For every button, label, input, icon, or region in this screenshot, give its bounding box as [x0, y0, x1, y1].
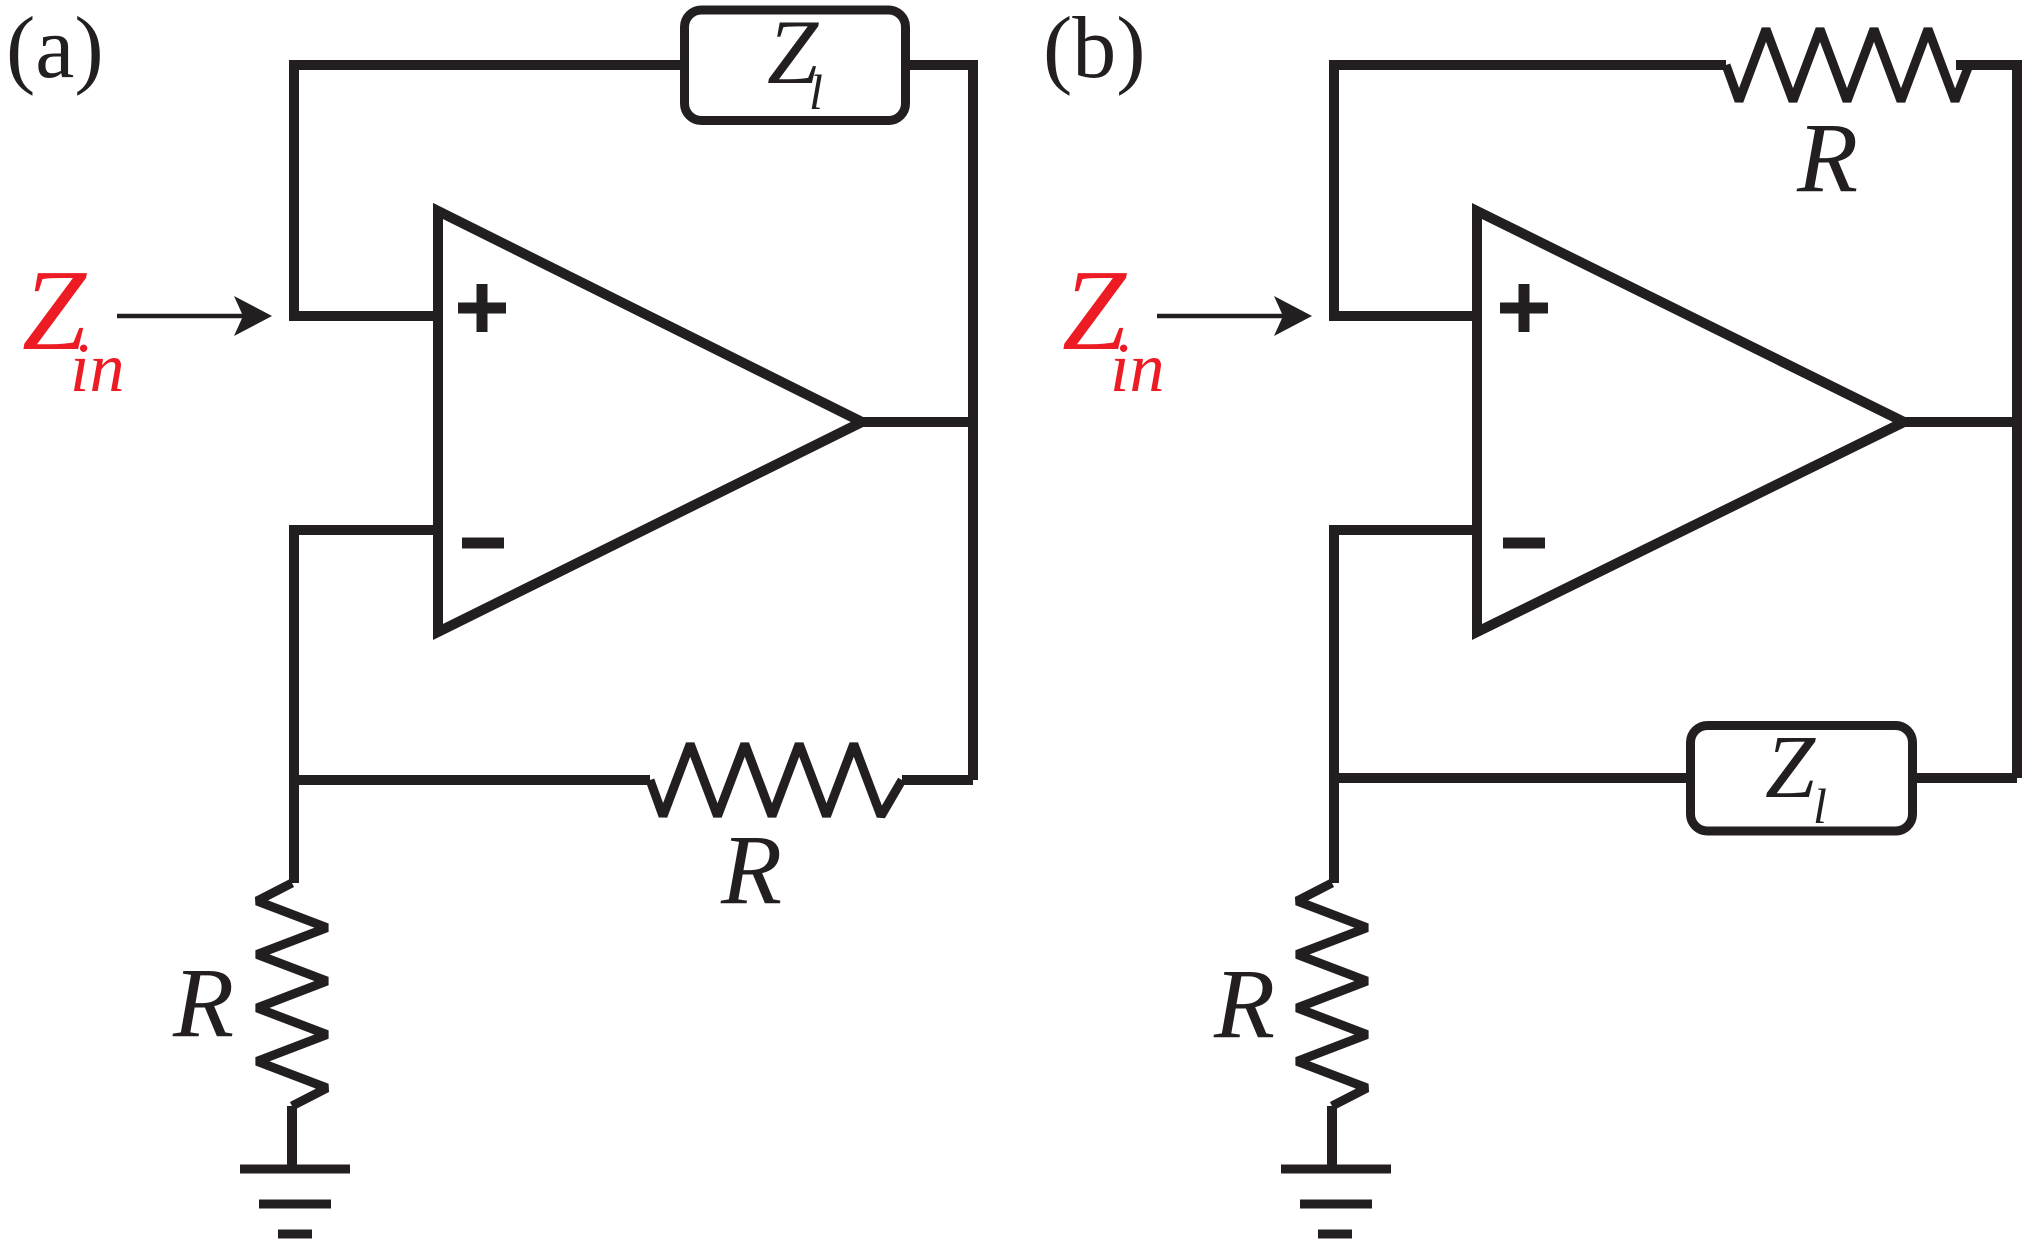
op-amp U1 (b)	[1477, 211, 1904, 632]
wire: - node to Zl box (b)	[1334, 773, 1692, 783]
pin + (a)	[458, 284, 506, 332]
wire: feedback resistor to output (a)	[902, 775, 973, 785]
pin + (b)	[1500, 284, 1548, 332]
wire: output of op-amp (b)	[1904, 417, 2017, 427]
svg-text:l: l	[809, 64, 823, 120]
input arrow (a)	[117, 296, 272, 336]
wire: Zin node to + input (b)	[1329, 311, 1477, 321]
svg-text:R: R	[1213, 948, 1275, 1059]
wire: + node up and top to Zl box (a)	[294, 65, 686, 321]
pin - (a)	[462, 538, 504, 549]
wire: Zin node to + input (a)	[289, 311, 438, 321]
wire: - input horizontal (b)	[1329, 525, 1477, 535]
wire: resistor to ground (b)	[1327, 1106, 1337, 1169]
resistor R feedback (a)	[650, 744, 902, 816]
wire: - node down to resistor (a)	[289, 525, 299, 883]
svg-text:in: in	[1110, 330, 1164, 407]
pin - (b)	[1503, 538, 1545, 549]
svg-text:R: R	[720, 814, 782, 925]
wire: resistor to ground (a)	[287, 1106, 297, 1169]
op-amp U1 (a)	[438, 211, 862, 632]
svg-text:R: R	[172, 947, 234, 1058]
resistor R feedback (b)	[1726, 29, 1969, 101]
wire: + node up and top to resistor (b)	[1334, 65, 1726, 321]
svg-text:l: l	[1813, 778, 1827, 834]
svg-text:(a): (a)	[6, 0, 104, 97]
svg-text:(b): (b)	[1043, 0, 1146, 97]
wire: - input horizontal (a)	[289, 525, 438, 535]
wire: Zl box to output (b)	[1910, 773, 2017, 783]
resistor R to ground (b)	[1297, 883, 1367, 1106]
wire: output of op-amp (a)	[862, 417, 973, 427]
impedance Zl box (b)	[1691, 726, 1913, 832]
svg-text:Z: Z	[1765, 718, 1816, 817]
input arrow (b)	[1157, 296, 1312, 336]
wire: - node down to resistor (b)	[1329, 525, 1339, 883]
ground (a)	[240, 1169, 350, 1234]
svg-text:in: in	[70, 330, 124, 407]
impedance Zl box (a)	[685, 10, 906, 121]
ground (b)	[1281, 1169, 1391, 1234]
wire: Zl box to top-right corner and right vertical (a)	[904, 65, 973, 780]
resistor R to ground (a)	[257, 883, 327, 1106]
wire: - node to feedback resistor (a)	[294, 775, 650, 785]
wire: feedback resistor to top-right corner and right vertical (b)	[1956, 65, 2017, 778]
svg-text:R: R	[1796, 102, 1858, 213]
